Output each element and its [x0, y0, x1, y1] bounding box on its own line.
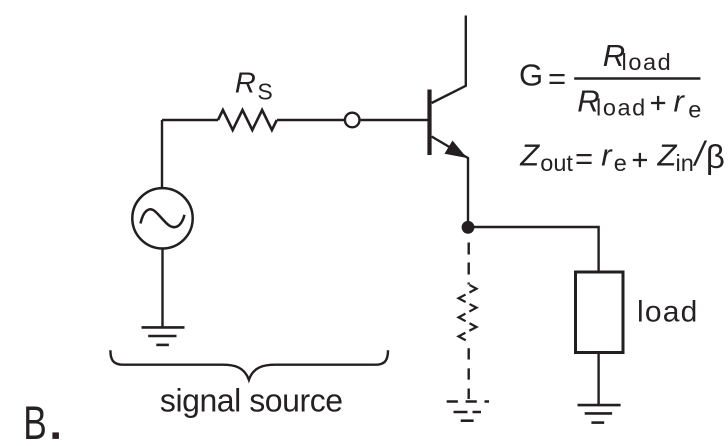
- svg-text:G: G: [519, 58, 543, 93]
- svg-text:β: β: [706, 138, 725, 175]
- svg-text:load: load: [637, 295, 699, 328]
- svg-text:e: e: [614, 150, 627, 176]
- svg-text:Z: Z: [657, 138, 678, 173]
- svg-text:r: r: [674, 84, 686, 119]
- svg-text:=: =: [548, 61, 566, 96]
- svg-text:load: load: [596, 95, 647, 121]
- svg-text:=: =: [575, 141, 593, 176]
- svg-text:e: e: [688, 97, 701, 123]
- svg-text:R: R: [235, 67, 256, 99]
- svg-text:in: in: [676, 150, 694, 176]
- svg-text:S: S: [257, 78, 272, 104]
- svg-text:signal source: signal source: [160, 383, 343, 419]
- svg-text:B: B: [23, 396, 47, 446]
- svg-text:load: load: [622, 49, 673, 75]
- svg-text:Z: Z: [519, 138, 540, 173]
- svg-text:r: r: [601, 138, 613, 173]
- svg-text:out: out: [540, 150, 573, 176]
